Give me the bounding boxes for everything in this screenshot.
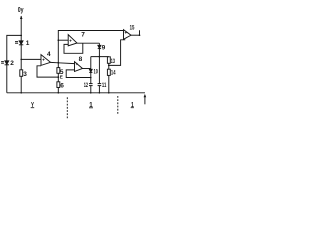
svg-text:12: 12 <box>84 82 89 89</box>
svg-text:9: 9 <box>102 45 106 52</box>
svg-text:0y: 0y <box>18 5 24 14</box>
svg-text:8: 8 <box>79 56 83 63</box>
svg-text:7: 7 <box>81 32 85 39</box>
svg-text:13: 13 <box>111 58 115 65</box>
svg-text:E: E <box>60 75 63 80</box>
svg-text:2: 2 <box>10 60 14 67</box>
svg-text:3: 3 <box>23 71 27 78</box>
svg-text:14: 14 <box>111 70 116 77</box>
svg-text:11: 11 <box>102 82 107 89</box>
svg-text:10: 10 <box>94 69 98 76</box>
svg-text:15: 15 <box>130 25 135 32</box>
svg-text:6: 6 <box>60 82 64 89</box>
svg-text:1: 1 <box>26 40 30 47</box>
svg-text:4: 4 <box>47 51 51 58</box>
